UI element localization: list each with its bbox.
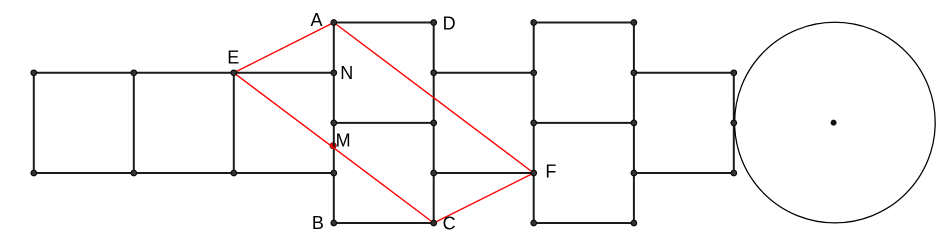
wire bottom edge of square BC (B-C) [334, 222, 434, 224]
wire bottom edge of square AD [334, 122, 434, 124]
wire top edge of square S7 [534, 22, 634, 24]
svg-text:C: C [443, 214, 456, 234]
wire vertical line x=634 [633, 23, 635, 224]
wire right edge of square S9 [733, 73, 735, 173]
node S1 bottom-left [31, 170, 37, 176]
svg-text:F: F [545, 161, 556, 181]
wire red segment A-F [334, 23, 534, 174]
node N point [331, 70, 337, 76]
node x634 y22 [631, 20, 637, 26]
wire top edge of square S9 [634, 72, 734, 74]
node x534 y223 [531, 220, 537, 226]
node B point [331, 220, 337, 226]
wire vertical line D-C (x=434) [433, 23, 435, 224]
node x534 y22 [531, 20, 537, 26]
node x634 y123 [631, 120, 637, 126]
wire bottom edge of squares S1-S3 (y=173) [34, 172, 334, 174]
wire bottom edge of square S6 [434, 172, 534, 174]
node D point [431, 20, 437, 26]
node x734 y173 [731, 170, 737, 176]
wire red segment E-A [234, 23, 334, 73]
node F point [531, 170, 537, 176]
wire bottom edge of square S9 [634, 172, 734, 174]
svg-text:A: A [311, 10, 323, 30]
wire shared edge of squares S7/S8 [534, 122, 634, 124]
node x434 y123 [431, 120, 437, 126]
wire top edge of square AD (A-D) [334, 22, 434, 24]
node x534 y73 [531, 70, 537, 76]
svg-text:M: M [336, 131, 351, 151]
svg-text:D: D [443, 14, 456, 34]
svg-text:E: E [227, 48, 239, 68]
wire vertical line through F (x=534) [533, 23, 535, 224]
node x634 y223 [631, 220, 637, 226]
node x634 y73 [631, 70, 637, 76]
wire edge between S2 and S3 through E [233, 73, 235, 173]
wire bottom edge of square S8 [534, 222, 634, 224]
node S1 top-left [31, 70, 37, 76]
wire top edge of square S6 [434, 72, 534, 74]
wire top edge of squares S1-S3 (y=73) [34, 72, 334, 74]
svg-text:B: B [312, 213, 324, 233]
node S3 bottom-right [331, 170, 337, 176]
wire edge between S1 and S2 [133, 73, 135, 173]
node tangent point x734 y123 [731, 120, 737, 126]
node x334 y123 [331, 120, 337, 126]
wire red segment C-F [434, 173, 534, 223]
node S1/S2 top [131, 70, 137, 76]
node x434 y173 [431, 170, 437, 176]
wire left edge of square S1 [33, 73, 35, 173]
node x634 y173 [631, 170, 637, 176]
node x734 y73 [731, 70, 737, 76]
node x434 y73 [431, 70, 437, 76]
node S2/S3 bottom [231, 170, 237, 176]
wire vertical line A-N-M-B (x=334) [333, 23, 335, 224]
node E point [231, 70, 237, 76]
node C point [431, 220, 437, 226]
node M red point [330, 143, 336, 149]
node x534 y123 [531, 120, 537, 126]
circle O [735, 22, 936, 223]
node S1/S2 bottom [131, 170, 137, 176]
svg-text:N: N [340, 63, 353, 83]
circle center point [831, 120, 837, 126]
wire red segment E-C [234, 73, 434, 223]
node A point [331, 20, 337, 26]
